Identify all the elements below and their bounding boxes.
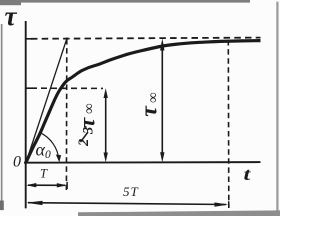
fraction slash of 2/3 label: [81, 132, 89, 142]
svg-text:0: 0: [13, 154, 21, 171]
dashed vertical line at t=5T: [227, 40, 230, 208]
horizontal double arrow T: [28, 184, 65, 186]
tick on y-axis at 2/3 level: [26, 87, 31, 89]
x-axis: [24, 161, 261, 164]
scan border: top gray bar: [0, 0, 250, 3]
svg-text:τ: τ: [5, 1, 18, 31]
svg-text:T: T: [40, 166, 48, 180]
dashed horizontal line at 2/3 level: [31, 87, 103, 89]
svg-text:t: t: [244, 164, 252, 184]
arrowhead of angle arc: [56, 155, 61, 163]
tangent line from origin: [26, 38, 67, 163]
scan border: left gray bar: [1, 24, 3, 201]
scan border: right gray bar: [276, 2, 278, 216]
tick on y-axis at asymptote level: [26, 38, 32, 40]
vertical double arrow 2/3 tau-infinity: [105, 92, 107, 158]
end tick for T arrow: [66, 182, 68, 189]
response curve tau(t): [26, 41, 261, 163]
svg-text:5T: 5T: [123, 184, 139, 199]
horizontal double arrow 5T: [28, 203, 226, 205]
vertical double arrow tau-infinity: [161, 42, 163, 158]
scan border: bottom gray bar: [78, 210, 280, 216]
end tick for 5T arrow: [228, 201, 230, 208]
paper background: [0, 0, 280, 216]
y-axis: [25, 21, 27, 208]
angle arc alpha0: [40, 133, 59, 160]
dashed asymptote line at tau-infinity level: [31, 38, 261, 39]
dashed vertical line at t=T: [65, 39, 67, 190]
